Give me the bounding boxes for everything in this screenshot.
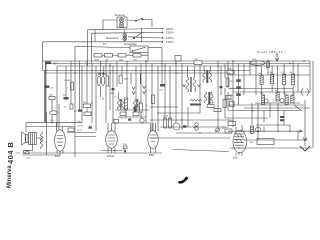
IFT3 lower [204, 92, 206, 103]
resistor R26 [227, 70, 234, 74]
svg-text:5k: 5k [290, 72, 292, 74]
lamp La2 [119, 23, 124, 28]
wire lamp feed [124, 30, 126, 34]
resistor R7 [49, 97, 55, 100]
wire coil block [112, 110, 150, 123]
svg-text:25k: 25k [230, 95, 233, 97]
svg-text:1M: 1M [222, 128, 225, 130]
switch S3 [294, 105, 302, 111]
resistor R25 hatched [291, 93, 295, 103]
wire bottom frame right [173, 150, 229, 152]
resistor R34 blob [78, 110, 82, 112]
svg-text:Sicherung: Sicherung [115, 14, 126, 17]
wire tap 125 [128, 37, 163, 38]
resistor R42 [68, 128, 74, 132]
wire tap 150 [92, 32, 164, 35]
junction dots [45, 60, 304, 133]
wire V1 top [58, 104, 60, 130]
jack arcs [302, 89, 309, 96]
resistor R41 [226, 96, 231, 100]
svg-text:50k: 50k [269, 72, 272, 74]
wire bus y66 [57, 65, 310, 67]
capacitor C5 [124, 146, 128, 149]
wire verticals midleft [80, 61, 153, 131]
wire bus y73 [45, 72, 231, 74]
wire V4 pins up [236, 125, 242, 132]
svg-text:2x450: 2x450 [64, 80, 71, 82]
wire vertical x75 [74, 46, 76, 157]
resistor R33 [133, 112, 139, 116]
wire bottom bus y153 [28, 152, 162, 154]
wire V1 bottom [22, 151, 60, 155]
capacitor C7 blob [183, 125, 186, 127]
svg-text:EB4: EB4 [149, 153, 154, 157]
wire bus y61 [43, 60, 311, 62]
wire tap 220 [88, 29, 164, 30]
wire vertical x71 [70, 61, 72, 104]
resistor R21 hatched [290, 72, 295, 85]
wire resistor row [102, 54, 148, 56]
capacitor C20 blob [112, 88, 115, 90]
wire bus y63.5 [46, 63, 311, 65]
coil L1 oval [50, 111, 58, 115]
svg-text:1k: 1k [275, 90, 277, 92]
resistor R37 on bus [194, 61, 202, 65]
resistor R29 blob [45, 86, 50, 88]
wire box right to switch [127, 19, 136, 22]
svg-text:100k: 100k [227, 68, 231, 70]
pickup arrow [304, 118, 306, 147]
tube V4 [233, 130, 247, 153]
small rect above bus [175, 56, 181, 62]
trimmer arrows second [143, 86, 146, 95]
cap pair [195, 123, 198, 126]
terminal box [257, 139, 274, 145]
capacitor C8 [267, 62, 270, 68]
IFT2 core [190, 77, 191, 92]
wire x91.5 down [91, 33, 93, 63]
lamp La3 [123, 34, 127, 38]
wire lamp bottom [124, 41, 126, 42]
resistor R30 hatched [125, 98, 128, 110]
capacitor C12 blob [128, 119, 131, 121]
resistor R9 [106, 76, 109, 86]
svg-text:EK2: EK2 [55, 154, 60, 158]
capacitor C1 [70, 104, 73, 109]
wire speaker feed vertical [25, 123, 27, 133]
wire V4 bottom [238, 152, 240, 155]
svg-text:5x+22,TBF+4T: 5x+22,TBF+4T [257, 50, 283, 54]
svg-text:0,3A: 0,3A [16, 151, 21, 154]
resistor R23 hatched [275, 90, 280, 101]
wire top bus y42 [43, 41, 164, 43]
resistor R40 [114, 120, 119, 124]
IFT3 upper [203, 71, 205, 82]
power transformer box T1 [117, 17, 127, 28]
wire vertical x66 [65, 66, 67, 100]
electrolytic C2 [97, 76, 100, 86]
resistor R14 [169, 118, 172, 128]
resistor R3 [105, 54, 113, 58]
switch box S2 [130, 46, 148, 53]
resistor R36 [152, 95, 155, 104]
svg-text:1k 4k: 1k 4k [163, 116, 169, 118]
wire right horizontals [228, 75, 310, 108]
trimmer chevrons IFT1 [183, 84, 201, 87]
capacitor C16 blob [236, 93, 241, 96]
svg-text:Osz.: Osz. [114, 97, 119, 99]
capacitor C14 [84, 112, 91, 116]
wire y122.6 [26, 122, 82, 124]
choke L4 [250, 61, 265, 65]
resistor R16 [214, 109, 221, 112]
svg-text:1M: 1M [53, 63, 56, 66]
resistor R15 [207, 105, 214, 108]
arrow 150 [162, 32, 163, 34]
capacitor C11 [256, 127, 261, 132]
wire verticals mid [158, 61, 225, 131]
arrow 220 [162, 28, 163, 30]
wire power loop left [103, 20, 117, 30]
wire y136.5 [75, 136, 96, 138]
resistor R22 hatched [260, 93, 265, 105]
resistor R19 hatched [269, 72, 274, 84]
resistor R27 [223, 100, 227, 108]
wire right mid verticals [252, 103, 298, 140]
arrowhead right [299, 130, 302, 132]
wire x87.5 down [87, 30, 89, 66]
wire right mid horizontals [225, 103, 312, 148]
speaker body [26, 135, 29, 143]
svg-text:0,3M: 0,3M [229, 120, 234, 122]
wire vertical x40 [45, 64, 47, 123]
coil L3 [190, 100, 202, 101]
svg-text:1M: 1M [259, 73, 262, 75]
capacitor C22 blob [220, 86, 223, 88]
terminal bar [141, 28, 143, 42]
coil L6 pair [133, 99, 135, 109]
svg-text:50k: 50k [104, 74, 107, 76]
capacitor C19 blobs [280, 116, 284, 118]
svg-text:PM: PM [123, 144, 126, 146]
wire right edge x313 [312, 61, 314, 148]
resistor R39 [71, 82, 74, 90]
electrolytic C6 [173, 123, 180, 130]
wire bus y70.5 [43, 70, 251, 72]
antenna arrow [275, 54, 279, 62]
resistor R8 [64, 97, 69, 100]
svg-text:47k: 47k [230, 81, 233, 83]
handwritten mark [179, 177, 188, 183]
lamp La1 [119, 18, 124, 23]
svg-text:47k: 47k [229, 100, 232, 102]
resistor R28 [228, 122, 236, 126]
resistor R32 [120, 112, 126, 116]
coil L7 windings [40, 132, 43, 142]
svg-text:Skalenlamp.: Skalenlamp. [106, 38, 119, 40]
wire to wave switch [75, 46, 130, 48]
capacitor C21 bar [134, 107, 137, 113]
svg-text:150V~: 150V~ [166, 31, 175, 35]
wire to fuse box [24, 145, 33, 151]
wire left long vertical x44 [42, 42, 44, 71]
resistor R5 [133, 54, 141, 58]
fuse box [24, 150, 30, 153]
resistor R31 [140, 103, 143, 112]
svg-text:Ant.: Ant. [103, 42, 107, 45]
resistor R35 [230, 102, 235, 107]
capacitor C10 blob [236, 86, 241, 89]
coil L5 pair [117, 99, 119, 109]
arrow 110 [162, 41, 163, 43]
capacitor C15 blob [89, 126, 92, 128]
svg-text:50 2n: 50 2n [77, 130, 82, 132]
output transformer Tr2 [29, 133, 37, 145]
trimmer cap arrows [132, 87, 135, 95]
resistor R43 [119, 75, 122, 84]
resistor R17 [225, 129, 232, 133]
svg-text:110V~: 110V~ [166, 40, 175, 44]
potentiometer P1 [216, 128, 220, 132]
svg-text:EL3: EL3 [233, 156, 238, 160]
wire vertical x46 [45, 64, 47, 123]
capacitor C13 [140, 118, 144, 122]
tube V2 [106, 131, 118, 149]
resistor R20 hatched [281, 72, 286, 85]
resistor R13 [164, 118, 167, 128]
IFT2 coils [186, 77, 189, 92]
capacitor C9 blob [236, 79, 241, 82]
svg-text:Minerva: Minerva [7, 165, 13, 188]
svg-text:100 5n: 100 5n [77, 126, 83, 128]
arrow 125 [162, 37, 163, 39]
svg-text:5k: 5k [102, 99, 104, 101]
wire V2 pins up [108, 123, 115, 132]
resistor R12 [226, 78, 229, 87]
capacitor C18 circle [280, 99, 284, 103]
svg-text:1n: 1n [146, 106, 148, 108]
wire transformer right [37, 137, 42, 139]
resistor R4 [118, 54, 126, 58]
wire y132 [67, 132, 96, 134]
svg-text:ECH4: ECH4 [107, 154, 114, 158]
speaker LS horn [22, 132, 26, 145]
svg-text:Netzschalter: Netzschalter [124, 43, 137, 46]
resistor R2 [94, 54, 102, 58]
svg-text:50k: 50k [83, 102, 86, 104]
arrow down [124, 149, 126, 153]
wire right verticals [228, 61, 310, 127]
lamp La4 [123, 37, 127, 41]
wire vertical x57 [56, 66, 58, 127]
switch S1 mains [134, 34, 141, 39]
resistor R11 [160, 84, 165, 87]
tube V1 [55, 130, 66, 152]
resistor R24 hatched [284, 93, 289, 105]
wire y127 [26, 126, 75, 128]
capacitor C17 circle [264, 99, 268, 103]
wire R7 to L1 [51, 100, 53, 123]
svg-text:4k: 4k [121, 118, 123, 120]
electrolytic C3 [101, 76, 104, 86]
wire mid horizontals [150, 107, 232, 138]
resistor R10 [84, 104, 91, 108]
wire V2 bottom frame [101, 150, 122, 152]
resistor R38 hatched [251, 126, 254, 134]
resistor R6 [45, 62, 51, 65]
svg-text:404 B: 404 B [6, 142, 15, 164]
resistor R18 hatched [259, 73, 264, 85]
wire V3 pins up [151, 123, 156, 132]
tube V3 [148, 131, 158, 149]
